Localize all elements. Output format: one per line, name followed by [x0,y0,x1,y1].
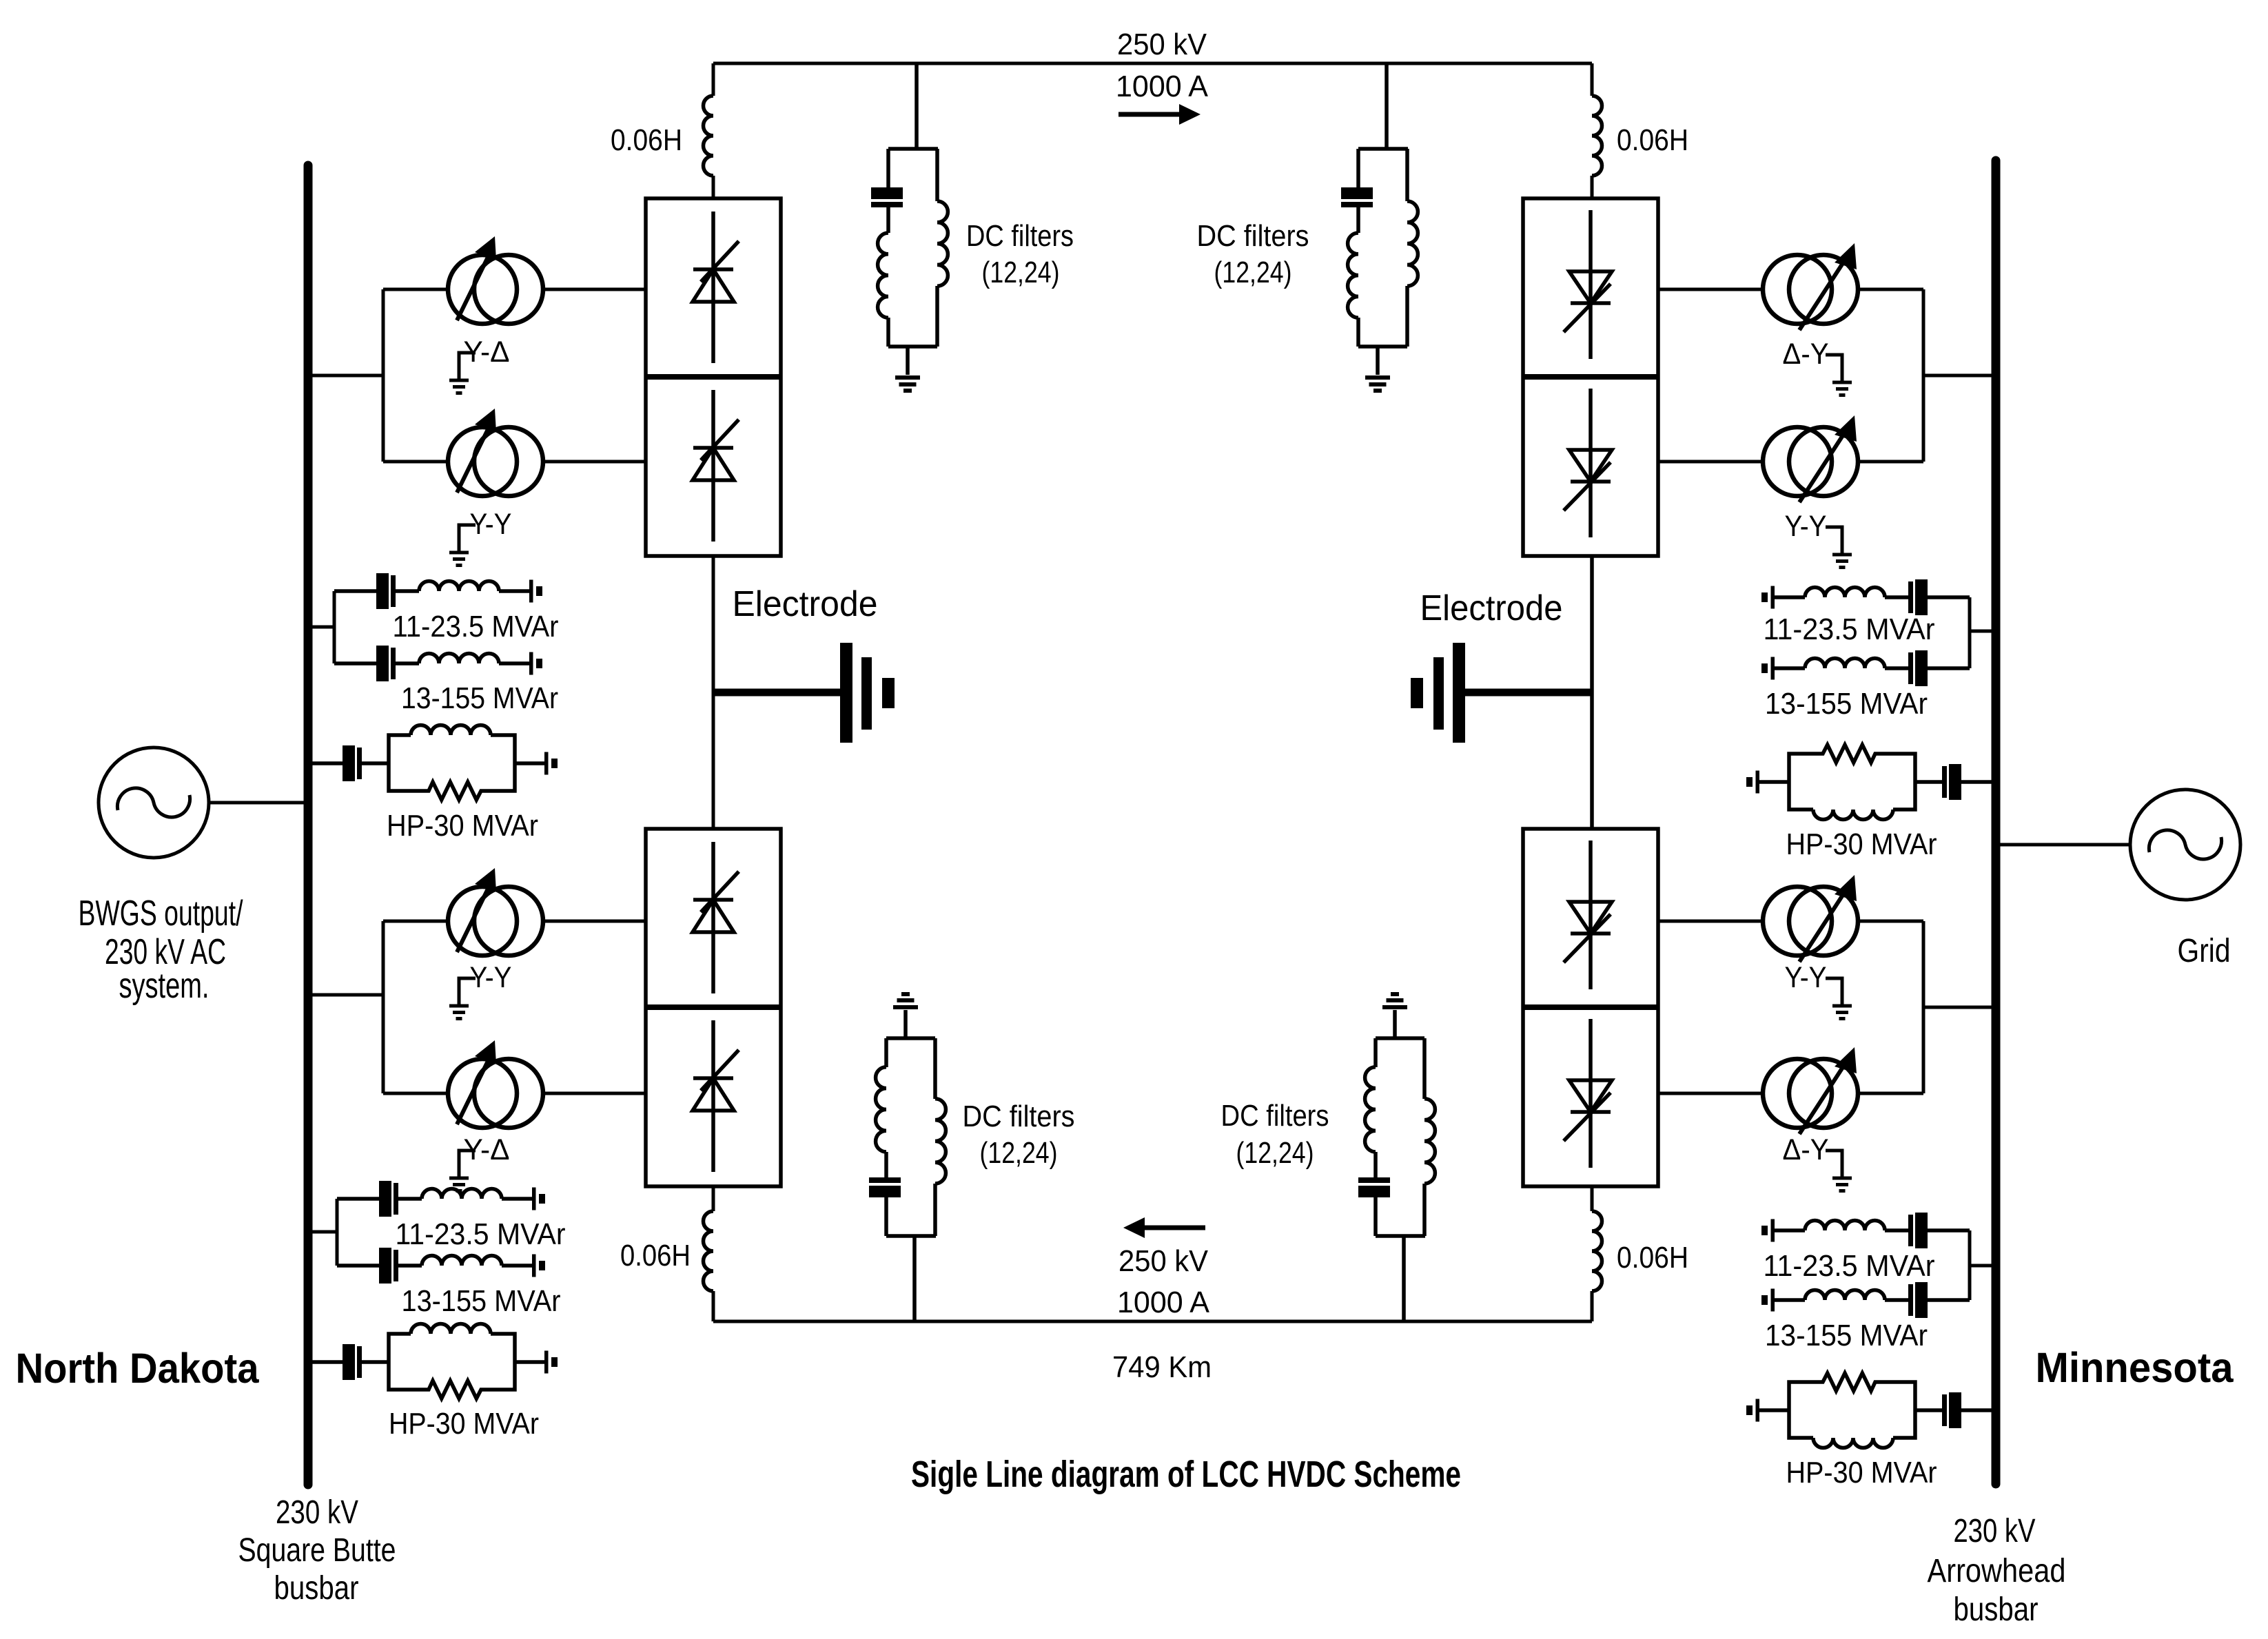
ground neutral of transformer [1826,1151,1852,1191]
wire valve to transformer [1659,1092,1763,1095]
wire reactor to bottom line right [1591,1291,1594,1321]
svg-text:11-23.5 MVAr: 11-23.5 MVAr [1764,1249,1935,1283]
wire transformer to feeder [1858,288,1923,291]
thyristor rectifier valve group top-left (two 6-pulse bridges) [646,198,781,556]
wire feeder to transformer [383,460,448,464]
wire transformer to valve [543,920,646,923]
svg-text:Minnesota: Minnesota [2036,1344,2234,1391]
AC source BWGS generator [99,748,209,858]
ground neutral of transformer [1826,527,1852,568]
svg-text:(12,24): (12,24) [1214,256,1292,289]
AC filter branch 13-155 MVAr top-left (capacitor, reactor, terminator) [334,646,542,681]
svg-text:0.06H: 0.06H [1617,1241,1688,1275]
svg-text:DC filters: DC filters [963,1100,1075,1133]
wire bottom DC line 250 kV pole [713,1320,1592,1323]
wire top line to reactor L2 [1591,63,1594,96]
svg-text:11-23.5 MVAr: 11-23.5 MVAr [1764,612,1935,646]
svg-text:230 kV: 230 kV [1954,1513,2036,1549]
svg-text:North Dakota: North Dakota [16,1345,260,1392]
svg-text:0.06H: 0.06H [611,123,682,157]
ground electrode left [713,643,895,743]
wire transformer feeder join top-right [1922,289,1925,462]
wire inverter valve bottom to reactor L4 [1591,1186,1594,1211]
svg-text:(12,24): (12,24) [982,256,1060,289]
svg-text:Y-Y: Y-Y [1785,961,1827,994]
high-pass filter HP-30 MVAr bottom-left (capacitor, L//R, terminator) [312,1324,558,1399]
thyristor inverter valve group bottom-right (two 6-pulse bridges) [1523,829,1658,1186]
ground neutral of transformer [449,525,476,566]
svg-text:(12,24): (12,24) [980,1136,1058,1170]
svg-text:13-155 MVAr: 13-155 MVAr [401,681,558,715]
AC filter branch 13-155 MVAr bottom-right (capacitor, reactor, terminator) [1761,1282,1970,1318]
wire busbar stub to converter transformers top-left [312,374,383,378]
wire reactor to inverter valve top [1591,176,1594,198]
svg-text:busbar: busbar [274,1570,359,1607]
smoothing reactor 0.06H top-right [1592,96,1602,176]
wire inverter neutral interconnect [1590,556,1594,829]
svg-text:Electrode: Electrode [1420,588,1563,628]
wire reactor to bottom line [712,1291,715,1321]
wire transformer to valve [543,288,646,291]
DC filter (12,24) bottom-right with capacitor, reactors and ground [1358,994,1435,1321]
svg-text:DC filters: DC filters [1221,1099,1329,1133]
wire AC filter join bottom-right [1968,1230,1972,1300]
wire AC filters stub to busbar bottom-right [1970,1264,1992,1268]
AC filter branch 11-23.5 MVAr bottom-left (capacitor, reactor, terminator) [337,1181,545,1217]
wire transformer to feeder [1858,920,1923,923]
wire transformer feeder join bottom-left [382,921,385,1093]
wire feeder to transformer [383,1092,448,1095]
wire AC filters stub to busbar top-right [1970,630,1992,633]
high-pass filter HP-30 MVAr top-left (capacitor, L//R, terminator) [312,725,558,801]
wire AC filter join top-left [333,591,336,663]
wire transformer feeder join bottom-right [1922,921,1925,1093]
arrow DC power flow left (bottom line) [1123,1217,1205,1238]
wire busbar stub to AC filters bottom-left [312,1230,337,1234]
wire valve to transformer [1659,920,1763,923]
svg-text:1000 A: 1000 A [1116,70,1209,103]
ground neutral of transformer [449,978,476,1019]
ground neutral of transformer [1826,355,1852,395]
converter transformer Y-Y bottom-left [448,868,543,956]
svg-text:13-155 MVAr: 13-155 MVAr [1765,1319,1928,1352]
wire top line to reactor L1 [712,63,715,96]
svg-text:Sigle Line diagram of LCC HVDC: Sigle Line diagram of LCC HVDC Scheme [911,1454,1461,1495]
wire AC filter join top-right [1968,597,1972,668]
wire top DC line 250 kV pole [713,62,1592,65]
svg-text:DC filters: DC filters [966,219,1074,253]
svg-text:11-23.5 MVAr: 11-23.5 MVAr [396,1217,566,1251]
Arrowhead 230 kV busbar (Minnesota) [1992,161,2001,1484]
svg-text:Δ-Y: Δ-Y [1783,1133,1829,1166]
wire transformer to feeder [1858,1092,1923,1095]
AC filter branch 13-155 MVAr bottom-left (capacitor, reactor, terminator) [337,1248,545,1284]
converter transformer Y-Y top-left [448,409,543,496]
svg-text:busbar: busbar [1954,1591,2039,1628]
svg-text:Electrode: Electrode [733,584,878,624]
DC filter (12,24) top-right with capacitor, reactors and ground [1341,63,1418,391]
converter transformer Y-Y top-right [1763,415,1858,502]
svg-text:250 kV: 250 kV [1118,1244,1209,1278]
ground neutral of transformer [449,353,476,393]
ground electrode right [1411,643,1592,743]
svg-text:749 Km: 749 Km [1112,1350,1212,1384]
AC filter branch 11-23.5 MVAr top-right (capacitor, reactor, terminator) [1761,579,1970,615]
Square Butte 230 kV busbar (North Dakota) [304,165,313,1485]
wire transformer to valve [543,1092,646,1095]
svg-text:Y-Y: Y-Y [1785,510,1827,543]
ground neutral of transformer [449,1151,476,1191]
wire busbar to Grid source [2000,843,2129,847]
thyristor inverter valve group top-right (two 6-pulse bridges) [1523,198,1658,556]
converter transformer &#916;-Y bottom-right [1763,1047,1858,1134]
svg-text:230 kV: 230 kV [276,1494,358,1531]
svg-text:1000 A: 1000 A [1117,1286,1210,1319]
wire AC filter join bottom-left [336,1199,339,1266]
wire transformer feeder join top-left [382,289,385,462]
svg-text:BWGS output/: BWGS output/ [79,894,243,934]
svg-text:0.06H: 0.06H [620,1239,691,1272]
wire BWGS source to busbar [209,801,304,805]
AC source Grid [2130,790,2240,900]
svg-text:Grid: Grid [2178,933,2231,969]
wire valve to transformer [1659,460,1763,464]
svg-text:system.: system. [119,966,210,1006]
wire converter transformers stub to busbar top-right [1923,374,1992,378]
smoothing reactor 0.06H bottom-left [704,1211,714,1291]
svg-text:Y-Y: Y-Y [470,508,512,541]
svg-text:13-155 MVAr: 13-155 MVAr [1765,687,1928,721]
wire feeder to transformer [383,288,448,291]
svg-text:Arrowhead: Arrowhead [1928,1553,2066,1589]
wire reactor to rectifier valve top [712,176,715,198]
AC filter branch 11-23.5 MVAr top-left (capacitor, reactor, terminator) [334,573,542,609]
svg-text:Square Butte: Square Butte [238,1532,396,1569]
converter transformer Y-&#916; top-left [448,236,543,324]
wire busbar stub to AC filters top-left [312,626,334,629]
smoothing reactor 0.06H bottom-right [1592,1211,1602,1291]
high-pass filter HP-30 MVAr top-right (capacitor, R//L, terminator) [1746,745,1992,820]
AC filter branch 11-23.5 MVAr bottom-right (capacitor, reactor, terminator) [1761,1213,1970,1248]
svg-text:HP-30 MVAr: HP-30 MVAr [1786,827,1937,861]
wire rectifier valve bottom to reactor L3 [712,1186,715,1211]
wire busbar stub to converter transformers bottom-left [312,993,383,997]
svg-text:HP-30 MVAr: HP-30 MVAr [1786,1456,1937,1489]
svg-text:Y-Y: Y-Y [470,961,512,994]
arrow DC power flow right (top line) [1118,104,1201,125]
thyristor rectifier valve group bottom-left (two 6-pulse bridges) [646,829,781,1186]
high-pass filter HP-30 MVAr bottom-right (capacitor, R//L, terminator) [1746,1373,1992,1448]
svg-text:0.06H: 0.06H [1617,123,1688,157]
wire converter transformers stub to busbar bottom-right [1923,1006,1992,1009]
svg-text:HP-30 MVAr: HP-30 MVAr [389,1407,539,1441]
wire feeder to transformer [383,920,448,923]
smoothing reactor 0.06H top-left [704,96,714,176]
wire transformer to valve [543,460,646,464]
svg-text:DC filters: DC filters [1197,219,1309,253]
svg-text:(12,24): (12,24) [1236,1136,1314,1170]
ground neutral of transformer [1826,978,1852,1019]
DC filter (12,24) top-left with capacitor, reactors and ground [871,63,948,391]
converter transformer Y-Y bottom-right [1763,875,1858,962]
wire rectifier neutral interconnect [712,556,715,829]
DC filter (12,24) bottom-left with capacitor, reactors and ground [869,994,946,1321]
svg-text:11-23.5 MVAr: 11-23.5 MVAr [393,610,559,643]
AC filter branch 13-155 MVAr top-right (capacitor, reactor, terminator) [1761,650,1970,686]
svg-text:Δ-Y: Δ-Y [1783,338,1829,371]
wire valve to transformer [1659,288,1763,291]
converter transformer &#916;-Y top-right [1763,243,1858,330]
svg-text:HP-30 MVAr: HP-30 MVAr [387,809,538,843]
svg-text:13-155 MVAr: 13-155 MVAr [402,1284,561,1318]
converter transformer Y-&#916; bottom-left [448,1040,543,1128]
wire transformer to feeder [1858,460,1923,464]
svg-text:250 kV: 250 kV [1117,28,1207,61]
